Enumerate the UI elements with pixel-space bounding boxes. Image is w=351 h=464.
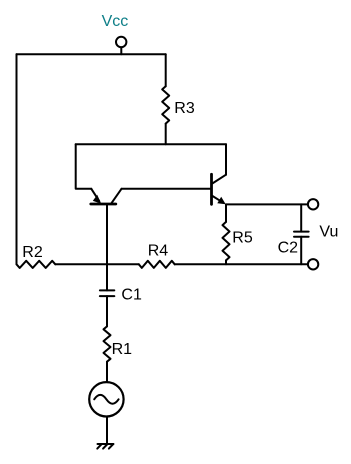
transistor Q1 xyxy=(91,189,122,204)
svg-text:R4: R4 xyxy=(148,242,169,259)
terminal Vcc xyxy=(116,37,126,55)
svg-text:R3: R3 xyxy=(174,100,195,117)
resistor R4 xyxy=(139,261,175,268)
wire left feedback xyxy=(16,54,18,264)
svg-text:R2: R2 xyxy=(22,244,43,261)
terminal Vu- xyxy=(308,259,318,269)
terminal Vu+ xyxy=(308,199,318,209)
wire Q1 base to bottom rail xyxy=(106,204,108,264)
svg-text:Vcc: Vcc xyxy=(102,13,129,30)
svg-text:R1: R1 xyxy=(112,341,133,358)
wire Q1 collector to Q2 base xyxy=(122,188,212,190)
ground xyxy=(97,444,113,449)
wire bottom rail right xyxy=(175,263,307,265)
capacitor C2 xyxy=(294,204,309,264)
wire Q1 emitter drop xyxy=(76,144,92,189)
capacitor C1 xyxy=(100,264,114,326)
wire bottom rail left xyxy=(55,263,139,265)
svg-text:Vu: Vu xyxy=(319,223,338,240)
wire R1 to source xyxy=(106,362,108,382)
resistor R3 xyxy=(162,54,169,144)
resistor R5 xyxy=(223,204,230,264)
wire source to ground xyxy=(106,417,108,444)
wire top rail xyxy=(17,53,166,55)
resistor R2 xyxy=(17,261,56,268)
svg-text:C1: C1 xyxy=(121,287,142,304)
source V1 AC xyxy=(89,382,123,416)
resistor R1 xyxy=(104,326,111,361)
svg-text:R5: R5 xyxy=(232,230,253,247)
wire collector rail xyxy=(76,143,226,145)
wire Q2 emitter to output xyxy=(226,203,307,205)
transistor Q2 xyxy=(212,174,227,204)
svg-text:C2: C2 xyxy=(278,240,299,257)
wire Q2 collector drop xyxy=(225,144,227,174)
